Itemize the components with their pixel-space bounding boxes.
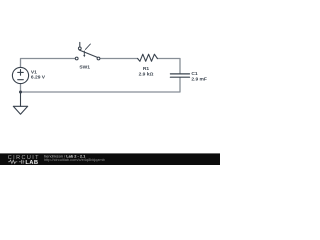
wire: C1 bottom down and left along bottom rail to junction xyxy=(21,78,181,92)
wire: R1 right lead to top-right corner down to C1 top xyxy=(157,59,180,74)
svg-text:LAB: LAB xyxy=(25,160,38,165)
bottom branding bar xyxy=(0,153,220,165)
svg-text:2.9 kΩ: 2.9 kΩ xyxy=(139,72,154,78)
svg-text:R1: R1 xyxy=(143,66,150,72)
voltage source V1 xyxy=(12,67,28,83)
svg-text:C1: C1 xyxy=(191,71,198,77)
svg-text:SW1: SW1 xyxy=(79,65,90,71)
svg-text:2.9 mF: 2.9 mF xyxy=(191,77,207,83)
svg-text:6.29 V: 6.29 V xyxy=(31,75,46,81)
wire top-left: from V1 top up and right to SW1 left terminal xyxy=(21,59,76,68)
junction node xyxy=(19,91,22,94)
CircuitLab logo xyxy=(8,155,40,166)
svg-text:http://circuitlab.com/c/e4q8bk: http://circuitlab.com/c/e4q8bkjqzmb xyxy=(44,157,105,162)
resistor R1 xyxy=(138,54,158,61)
switch SW1 xyxy=(75,42,100,59)
capacitor C1 xyxy=(170,74,189,77)
wire: SW1 right terminal to R1 left lead xyxy=(100,58,138,60)
wire: V1 bottom to junction xyxy=(20,84,22,92)
ground xyxy=(13,92,27,114)
bottom bar credit text xyxy=(44,154,105,163)
